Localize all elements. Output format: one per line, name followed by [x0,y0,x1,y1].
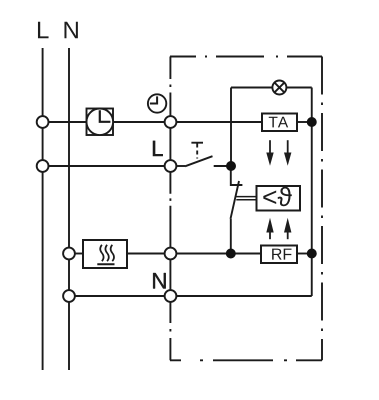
thermostat contact drop wire [231,166,243,185]
terminal circle L1 [37,116,49,128]
wire lamp branch vertical [230,88,232,167]
label N (internal node) [153,273,166,288]
box RF (feedback resistor) [261,246,297,264]
arrow down 2 [284,140,291,166]
terminal circle device switch [165,160,177,172]
wire heater feed (N to heater) [69,253,83,255]
arrow down 1 [266,140,273,166]
junction dot TA right [307,117,317,127]
wire RF box to right bus [297,253,312,255]
heater heat waves [97,245,114,264]
junction dot switch output [226,161,236,171]
junction dot RF right [307,249,317,259]
thermostat blade to RF junction [230,219,232,254]
wire N bottom inside [171,295,312,297]
terminal circle device L [165,116,177,128]
label L (mains) [38,22,49,39]
wire N bottom (N to terminal) [69,295,171,297]
terminal circle N2 [63,290,75,302]
junction dot RF left [226,249,236,259]
arrow up 2 [284,218,291,239]
switch blade S1 [185,156,213,166]
time switch U1 (clock in square) [87,109,114,136]
wire timer feed (L to time switch) [43,121,87,123]
terminal circle device RF [165,248,177,260]
label TA [269,117,278,128]
wire L supply vertical [42,48,44,370]
label N (mains) [64,22,77,39]
label L (internal node) [153,141,163,156]
box thermostat (&lt;theta) [257,186,301,211]
device outline bottom (dash-dot) [170,359,322,361]
terminal circle L2 [37,160,49,172]
device outline right (dash-dot) [321,57,323,361]
wire RF line (terminal to RF box) [171,253,262,255]
lamp E1 (indicator) [272,81,286,95]
thermostat contact blade [231,181,240,219]
clock symbol (timer function) [148,94,166,112]
wire time switch to terminal [113,121,171,123]
wire heater to terminal [127,253,171,255]
wire TA line (terminal to TA box) [171,121,263,123]
box heater E2 [83,240,127,268]
wire right bus vertical [311,88,313,297]
wire terminal to switch blade [171,165,186,167]
switch actuator dashed link [196,144,198,159]
device outline top (dash-dot) [170,56,322,58]
wire lamp horizontal [231,87,312,89]
arrow up 1 [266,218,273,239]
device outline left (dash-dot) [169,57,171,361]
wire switch feed (L to switch terminal) [43,165,171,167]
wire N supply vertical [68,48,70,370]
terminal circle device N [165,290,177,302]
label RF [272,249,281,260]
switch actuator T-bar [191,142,203,144]
switch fixed contact [214,165,231,167]
wire TA box to right bus [297,121,312,123]
label &lt;theta [263,191,276,204]
terminal circle N1 [63,248,75,260]
box TA (frost protection contact) [262,114,297,132]
mechanical link double line [236,197,256,200]
